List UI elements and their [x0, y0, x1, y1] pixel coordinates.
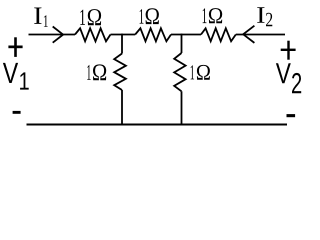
- wire bottom rail: [27, 123, 288, 125]
- resistor R3 1ohm top-right: [201, 28, 236, 41]
- minus sign left terminal: [13, 111, 21, 114]
- wire R4 to bottom rail: [121, 90, 123, 125]
- value ohm of R3 label: [209, 8, 222, 23]
- resistor R2 1ohm top-middle: [135, 28, 171, 41]
- label I1 subscript: [44, 15, 48, 27]
- value 1 of R5 label: [191, 65, 195, 79]
- minus sign right terminal: [287, 114, 296, 117]
- wire R5 to bottom rail: [181, 91, 183, 125]
- label V2 subscript: [292, 73, 301, 93]
- plus sign right terminal: [281, 49, 296, 51]
- wire node B down: [181, 34, 183, 53]
- current arrow I2 head: [243, 26, 254, 43]
- label I1 letter: [34, 8, 41, 24]
- label V1 letter: [3, 63, 18, 83]
- wire R1 to R2 through node A: [111, 34, 136, 36]
- value ohm of R2 label: [146, 8, 159, 24]
- value ohm of R1 label: [88, 9, 101, 25]
- wire top-left input: [29, 34, 76, 36]
- label V2 letter: [276, 63, 291, 83]
- current arrow I1 head: [53, 27, 63, 43]
- resistor R5 1ohm shunt right: [174, 53, 185, 91]
- value 1 of R2 label: [140, 9, 144, 24]
- wire top-right input: [236, 34, 285, 36]
- label I2 subscript: [266, 13, 272, 26]
- wire node A down: [121, 34, 123, 54]
- label I2 letter: [257, 7, 264, 23]
- value 1 of R3 label: [203, 8, 207, 23]
- value 1 of R4 label: [87, 65, 91, 80]
- value ohm of R5 label: [197, 65, 210, 80]
- resistor R4 1ohm shunt left: [114, 54, 126, 91]
- label V1 subscript: [20, 72, 29, 89]
- wire R2 to R3 through node B: [171, 34, 201, 36]
- value 1 of R1 label: [80, 10, 85, 25]
- plus sign left terminal: [8, 46, 22, 49]
- resistor R1 1ohm top-left: [75, 28, 111, 41]
- value ohm of R4 label: [93, 64, 106, 80]
